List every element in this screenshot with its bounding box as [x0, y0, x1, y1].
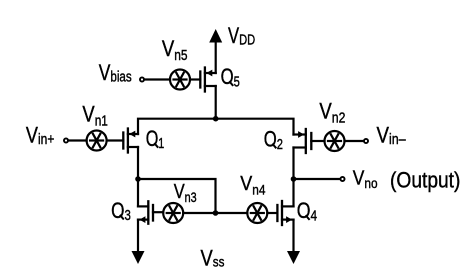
transistor Q2: [294, 129, 325, 153]
wire Q1 drain to Q3 drain: [137, 147, 139, 206]
wire Q4 source to VSS: [292, 220, 294, 254]
junction gate line node: [213, 210, 219, 216]
label Q4: [297, 198, 317, 224]
transistor Q5: [190, 68, 216, 92]
transistor Q3: [138, 201, 163, 223]
terminal Vno: [340, 177, 344, 181]
noise source Vn2: [325, 131, 345, 151]
transistor Q1: [107, 129, 138, 153]
noise source Vn5: [170, 70, 190, 90]
ground VSS arrow left: [132, 251, 145, 264]
wire Q2 drain to Q4 drain: [292, 148, 294, 207]
label Q2: [264, 127, 283, 153]
wire gate node to Vn4: [216, 212, 248, 214]
junction tail node: [213, 116, 219, 122]
wire Vn4 to Q4 gate: [267, 212, 277, 214]
junction output node: [291, 176, 297, 182]
wire Q5 drain to rail: [215, 86, 217, 119]
terminal Vin+: [64, 138, 68, 142]
label Q5: [221, 64, 240, 90]
wire output tap: [294, 178, 341, 180]
noise source Vn1: [87, 131, 107, 151]
wire Q3 source to VSS: [137, 220, 139, 254]
svg-text:(Output): (Output): [390, 168, 460, 193]
ground VSS arrow right: [287, 251, 300, 264]
terminal Vbias: [140, 77, 144, 81]
terminal Vin-: [364, 139, 368, 143]
wire Vbias to Vn5: [144, 78, 170, 80]
wire Vn2 to Vin-: [345, 140, 364, 142]
wire diode connection: [138, 179, 216, 213]
transistor Q4: [277, 201, 293, 225]
label Q3: [111, 198, 131, 224]
power VDD arrow: [209, 29, 222, 73]
label Q1: [146, 126, 165, 152]
wire Vin+ to Vn1: [68, 139, 86, 141]
noise source Vn4: [247, 203, 267, 223]
wire top rail: [138, 119, 294, 135]
noise source Vn3: [163, 203, 183, 223]
wire Vn3 to gate node: [183, 212, 215, 214]
junction Q1 drain node: [135, 176, 141, 182]
